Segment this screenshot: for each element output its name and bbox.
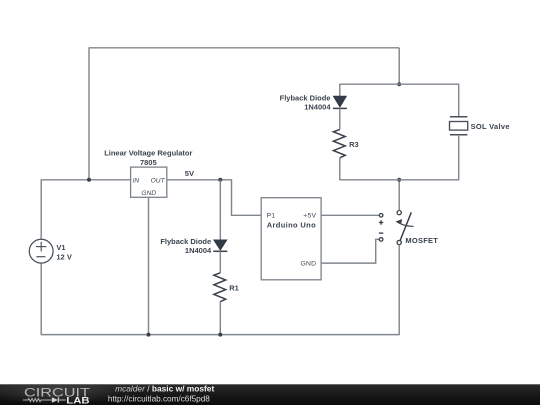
label MOSFET xyxy=(405,236,438,245)
svg-text:OUT: OUT xyxy=(151,178,166,185)
svg-text:MOSFET: MOSFET xyxy=(405,236,438,245)
label: Flyback Diode xyxy=(160,237,211,246)
svg-text:+5V: +5V xyxy=(303,213,316,220)
wire: diode D1 to resistor R1 xyxy=(219,251,221,272)
label: SOL Valve xyxy=(471,122,510,131)
value: 1N4004 (D2) xyxy=(304,103,331,112)
voltage source V1 xyxy=(29,239,53,334)
value 12 V xyxy=(56,253,71,262)
junction: regulator GND at ground rail xyxy=(147,333,151,337)
resistor R1 xyxy=(214,273,226,302)
diode D2 (flyback, 1N4004) xyxy=(333,96,347,108)
wire: Arduino +5V to MOSFET gate terminal xyxy=(321,214,379,216)
MOSFET Q1 (drawn as voltage-controlled switch) xyxy=(379,211,414,245)
label: 5V net xyxy=(185,169,194,178)
footer text: author / title xyxy=(115,383,214,393)
footer text: url xyxy=(108,394,210,403)
junction: 12V rail / riser xyxy=(87,178,91,182)
wire: loop right top segment into SOL valve xyxy=(458,84,460,117)
resistor R3 xyxy=(333,129,345,157)
junction: loop bottom / MOSFET branch xyxy=(397,178,401,182)
wire: top rail y=48 xyxy=(89,47,400,49)
wire: R1 to ground rail xyxy=(219,302,221,335)
voltage regulator U1 (7805) xyxy=(131,167,167,197)
wire: Arduino GND to MOSFET source terminal xyxy=(321,239,379,263)
wire: diode D2 to resistor R3 xyxy=(339,108,341,129)
wire: MOSFET source down to ground rail xyxy=(398,245,400,335)
junction: solenoid loop top xyxy=(397,82,401,86)
junction: R1 branch at ground rail xyxy=(218,333,222,337)
svg-text:GND: GND xyxy=(300,261,316,268)
wire: V1 plus terminal up to node at y=179.8 xyxy=(40,180,42,240)
wire: R3 to loop bottom xyxy=(339,158,341,181)
svg-text:Arduino Uno: Arduino Uno xyxy=(267,221,316,230)
wire: drop from top rail to solenoid loop top xyxy=(398,48,400,84)
CircuitLab logo xyxy=(23,385,91,405)
svg-text:LAB: LAB xyxy=(66,395,90,405)
wire: SOL valve to loop bottom xyxy=(458,135,460,181)
wire: loop left top segment into diode D2 xyxy=(339,84,341,97)
svg-text:1N4004: 1N4004 xyxy=(185,246,212,255)
svg-text:1N4004: 1N4004 xyxy=(304,103,331,112)
svg-text:SOL Valve: SOL Valve xyxy=(471,122,510,131)
module U2: Arduino Uno xyxy=(261,198,321,280)
wire: bottom ground rail xyxy=(41,334,400,336)
svg-text:http://circuitlab.com/c6f5pd8: http://circuitlab.com/c6f5pd8 xyxy=(108,394,210,403)
svg-text:V1: V1 xyxy=(56,243,65,252)
svg-text:Flyback Diode: Flyback Diode xyxy=(280,93,331,102)
footer bar xyxy=(0,379,540,405)
svg-text:Flyback Diode: Flyback Diode xyxy=(160,237,211,246)
label R1 xyxy=(229,283,239,292)
diode D1 (flyback, 1N4004) xyxy=(213,240,227,251)
label: 7805 xyxy=(140,158,157,167)
junction: 5V net / diode branch xyxy=(218,178,222,182)
wire: regulator OUT 5V net xyxy=(167,179,232,181)
wire: horizontal 12V rail into regulator IN xyxy=(41,179,131,181)
label R3 xyxy=(349,140,359,149)
wire: vertical riser x=89 from top rail down to 12V rail xyxy=(88,48,90,180)
wire: solenoid loop top xyxy=(340,83,459,85)
wire: regulator GND down to ground rail xyxy=(148,197,150,334)
svg-text:P1: P1 xyxy=(267,213,276,220)
label V1 xyxy=(56,243,65,252)
svg-text:5V: 5V xyxy=(185,169,194,178)
wire: 5V junction down to diode D1 xyxy=(219,180,221,240)
svg-text:mcalder / basic w/ mosfet: mcalder / basic w/ mosfet xyxy=(115,383,214,393)
svg-text:R3: R3 xyxy=(349,140,359,149)
value: 1N4004 xyxy=(185,246,212,255)
svg-text:GND: GND xyxy=(141,190,156,197)
label: Linear Voltage Regulator xyxy=(104,149,192,158)
svg-text:IN: IN xyxy=(133,178,140,185)
wire: solenoid loop bottom junction down to MOSFET drain xyxy=(398,180,400,211)
svg-text:12 V: 12 V xyxy=(56,253,71,262)
svg-text:Linear Voltage Regulator: Linear Voltage Regulator xyxy=(104,149,192,158)
svg-text:7805: 7805 xyxy=(140,158,157,167)
label: Flyback Diode (D2) xyxy=(280,93,331,102)
wire: 5V net to Arduino P1 xyxy=(232,179,262,215)
svg-text:R1: R1 xyxy=(229,283,239,292)
wire: solenoid loop bottom xyxy=(340,179,459,181)
crystal symbol: SOL Valve xyxy=(450,117,468,135)
